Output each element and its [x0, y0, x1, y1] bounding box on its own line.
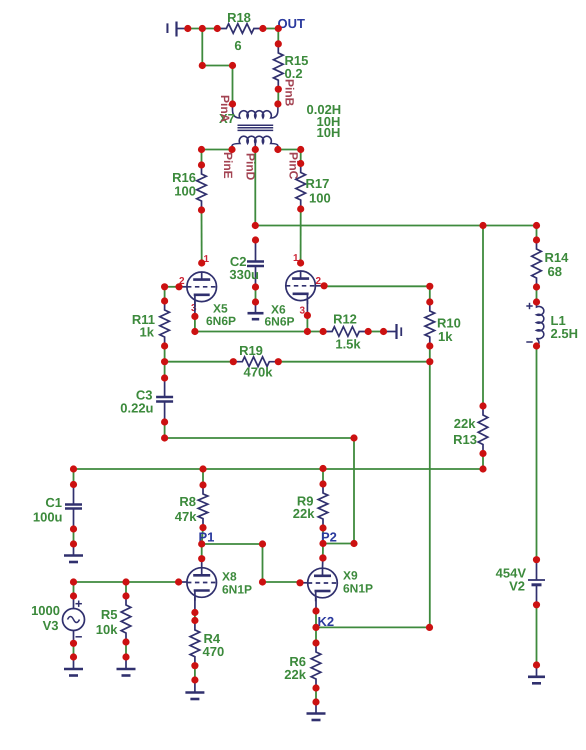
svg-text:R8: R8: [179, 494, 196, 509]
svg-text:68: 68: [548, 264, 562, 279]
svg-text:6: 6: [234, 38, 241, 53]
svg-text:R18: R18: [227, 10, 251, 25]
svg-text:0.22u: 0.22u: [120, 401, 153, 416]
svg-text:PinB: PinB: [283, 79, 297, 107]
svg-text:R14: R14: [545, 250, 570, 265]
svg-text:X8: X8: [222, 570, 237, 584]
svg-text:6N1P: 6N1P: [222, 583, 252, 597]
svg-text:22k: 22k: [454, 416, 476, 431]
svg-text:R5: R5: [101, 607, 118, 622]
svg-text:PinE: PinE: [221, 152, 235, 179]
svg-text:1.5k: 1.5k: [335, 337, 361, 352]
svg-text:470k: 470k: [244, 365, 274, 380]
svg-text:22k: 22k: [284, 667, 306, 682]
svg-text:10H: 10H: [317, 125, 341, 140]
svg-text:1k: 1k: [438, 329, 453, 344]
svg-text:R13: R13: [453, 432, 477, 447]
svg-text:X9: X9: [343, 569, 358, 583]
svg-text:V3: V3: [43, 618, 59, 633]
svg-text:1000: 1000: [31, 603, 60, 618]
svg-text:R17: R17: [306, 176, 330, 191]
svg-text:470: 470: [203, 644, 225, 659]
svg-text:R12: R12: [333, 312, 357, 327]
svg-text:3: 3: [191, 303, 197, 314]
svg-text:100: 100: [309, 191, 331, 206]
svg-text:100u: 100u: [33, 510, 63, 525]
svg-text:22k: 22k: [293, 506, 315, 521]
svg-text:R19: R19: [239, 343, 263, 358]
svg-text:47k: 47k: [175, 509, 197, 524]
svg-text:6N6P: 6N6P: [206, 314, 236, 328]
svg-text:I: I: [400, 325, 403, 339]
svg-text:2.5H: 2.5H: [551, 326, 578, 341]
svg-text:C1: C1: [45, 495, 62, 510]
svg-text:V2: V2: [509, 579, 525, 594]
svg-text:6N6P: 6N6P: [265, 315, 295, 329]
svg-text:PinA: PinA: [218, 95, 232, 123]
svg-text:1k: 1k: [140, 325, 155, 340]
svg-text:100: 100: [174, 184, 196, 199]
svg-text:330u: 330u: [229, 267, 259, 282]
svg-text:10k: 10k: [96, 622, 118, 637]
svg-text:I: I: [166, 20, 170, 36]
svg-text:6N1P: 6N1P: [343, 582, 373, 596]
